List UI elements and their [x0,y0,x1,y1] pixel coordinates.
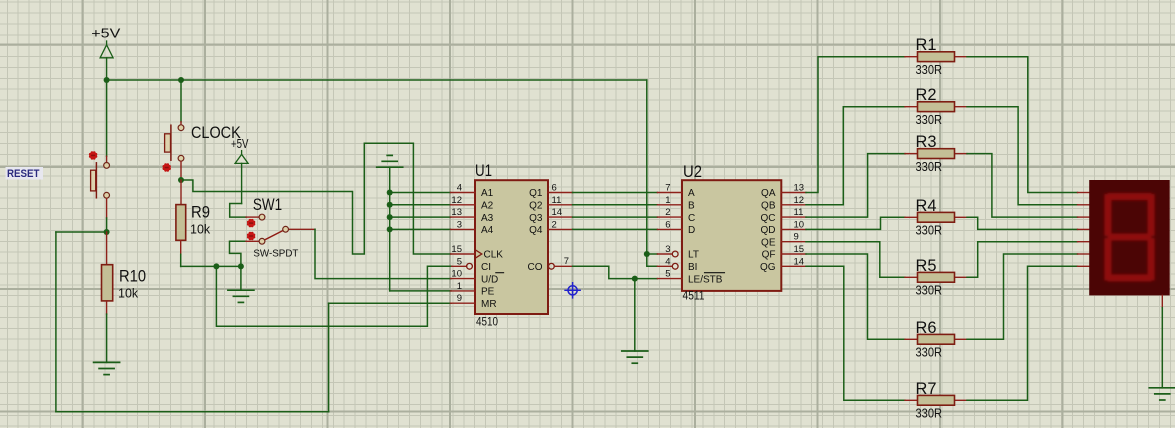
svg-text:CLK: CLK [484,250,504,261]
svg-text:U2: U2 [683,162,702,181]
wire CI route [216,266,451,326]
U2 pin 9 QE [761,232,806,249]
wire R5 to display pin e [967,242,1078,278]
svg-text:6: 6 [665,219,670,230]
label RESET [6,167,44,180]
svg-text:14: 14 [552,207,563,218]
svg-text:BI: BI [688,262,697,273]
node rail-clock junction [178,77,184,83]
svg-text:R6: R6 [916,318,937,337]
resistor R2 [905,85,967,127]
U2 pin 1 B [657,195,695,212]
svg-text:4: 4 [665,256,670,267]
wire Q to U2 input [573,204,658,206]
svg-text:Q3: Q3 [529,213,543,224]
wire Q to U2 input [573,216,658,218]
svg-text:R7: R7 [916,379,937,398]
wire rail down to LT/BI [647,80,658,266]
svg-text:330R: 330R [916,346,943,360]
7-segment display [1089,180,1170,295]
svg-text:A: A [688,188,695,199]
svg-text:13: 13 [451,207,462,218]
svg-text:QB: QB [761,201,776,212]
svg-text:R9: R9 [191,203,210,222]
svg-text:LT: LT [688,250,699,261]
svg-text:9: 9 [794,232,799,243]
svg-text:1: 1 [457,281,462,292]
wire R9 bottom [180,254,182,266]
svg-text:Q1: Q1 [529,188,543,199]
U2 pin 15 QF [762,244,806,261]
svg-text:QC: QC [761,213,776,224]
svg-text:10: 10 [451,269,462,280]
wire QF to R6 [806,254,905,339]
svg-text:U/D: U/D [481,274,498,285]
display common lead [1161,295,1163,307]
U2 pin 10 QD [761,219,807,236]
ground at display [1149,388,1175,400]
wire A-bus vertical [389,167,391,291]
U1 pin 12 A2 [451,195,494,212]
U1 pin 11 Q2 [529,195,572,212]
push button RESET [89,151,110,218]
resistor R6 [905,318,967,360]
svg-text:330R: 330R [916,160,943,174]
node A4 junction [387,226,393,232]
power symbol +5V at SW1 [231,137,249,203]
U1 pin 14 Q3 [529,207,572,224]
node LT junction [644,251,650,257]
U1 pin 5 CI [452,256,491,273]
ground above A-bus (inverted) [377,155,403,167]
svg-text:3: 3 [457,219,462,230]
wire R4 to display pin d [967,217,1078,229]
svg-text:2: 2 [552,219,557,230]
power symbol +5V top-left [91,26,121,80]
svg-text:QF: QF [762,250,776,261]
node A2 junction [387,202,393,208]
wire A2 branch [390,204,451,206]
U1 pin 9 MR [451,293,497,310]
display pin lead [1078,216,1090,218]
display pin lead [1078,204,1090,206]
wire SW1 bottom throw to ground node [230,241,247,266]
svg-text:15: 15 [451,244,462,255]
wire R6 to display pin f [967,254,1078,339]
wire MR horizontal [329,302,451,304]
IC U2 4511 body [682,162,781,303]
svg-text:6: 6 [552,183,557,194]
svg-text:11: 11 [552,195,562,206]
wire PE branch [390,290,451,292]
svg-text:330R: 330R [916,284,943,298]
ground at SW1 [228,266,254,302]
wire QE to R5 [806,242,905,278]
wire ci node rail [181,265,241,267]
svg-text:RESET: RESET [7,168,40,180]
node LE junction [632,276,638,282]
U1 pin 15 CLK [451,244,504,261]
svg-text:330R: 330R [916,224,943,238]
wire rail to RESET button [106,80,108,156]
svg-text:+5V: +5V [231,137,249,151]
U1 pin 10 U/D [451,269,504,286]
svg-text:Q4: Q4 [529,225,543,236]
U2 pin 12 QB [761,195,806,212]
svg-text:A1: A1 [481,188,494,199]
resistor R7 [905,379,967,421]
svg-text:A4: A4 [481,225,494,236]
svg-text:CI: CI [481,262,491,273]
switch SW1 SW-SPDT [246,195,315,260]
svg-text:Q2: Q2 [529,201,543,212]
wire display common to ground [1161,308,1163,388]
svg-text:SW1: SW1 [253,195,282,214]
wire CO to LE/STB [573,266,658,278]
resistor R5 [905,256,967,298]
svg-text:U1: U1 [475,161,492,180]
svg-text:QA: QA [761,188,776,199]
resistor R4 [905,196,967,238]
display pin lead [1078,265,1090,267]
wire A4 branch [390,228,451,230]
svg-text:12: 12 [451,195,462,206]
U2 pin 5 LE/STB [657,269,724,286]
svg-text:PE: PE [481,287,495,298]
svg-text:CO: CO [528,262,543,273]
node rail-reset junction [104,77,110,83]
U1 pin 1 PE [451,281,495,298]
svg-text:MR: MR [481,299,497,310]
display pin lead [1078,253,1090,255]
svg-text:9: 9 [457,293,462,304]
U2 pin 6 D [657,219,695,236]
U1 pin 4 A1 [451,183,494,200]
U2 pin 11 QC [761,207,807,224]
svg-text:R5: R5 [916,256,937,275]
svg-text:5: 5 [665,269,670,280]
node reset junction [104,229,110,235]
node A1 junction [387,190,393,196]
svg-text:11: 11 [794,207,804,218]
node A3 junction [387,214,393,220]
svg-text:QD: QD [761,225,776,236]
svg-text:13: 13 [794,183,805,194]
svg-text:+5V: +5V [91,26,121,40]
svg-text:QE: QE [761,237,776,248]
display pin lead [1078,192,1090,194]
display pin lead [1078,241,1090,243]
svg-text:4: 4 [457,183,462,194]
svg-text:SW-SPDT: SW-SPDT [253,249,298,260]
wire QD to R4 [806,217,905,229]
svg-text:14: 14 [794,256,805,267]
wire QA to R1 [806,57,905,193]
svg-text:330R: 330R [916,407,943,421]
push button CLOCK [163,122,184,180]
svg-text:A3: A3 [481,213,494,224]
svg-text:1: 1 [665,195,670,206]
svg-text:C: C [688,213,695,224]
svg-text:D: D [688,225,695,236]
wire QC to R3 [806,154,905,218]
wire reset node left [56,231,107,233]
wire +5V rail [107,79,647,81]
wire Q to U2 input [573,228,658,230]
svg-text:4510: 4510 [476,316,498,328]
wire R3 to display pin c [967,154,1078,218]
svg-text:R1: R1 [916,35,937,54]
wire R2 to display pin b [967,107,1078,205]
U2 pin 2 C [657,207,695,224]
display pin lead [1078,228,1090,230]
svg-text:2: 2 [665,207,670,218]
node clock junction [178,177,184,183]
svg-text:A2: A2 [481,201,494,212]
U1 pin 7 CO [528,256,573,273]
wire SW1 common to U/D [315,229,451,278]
svg-text:7: 7 [665,183,670,194]
svg-text:5: 5 [457,256,462,267]
wire A1 branch [390,192,451,194]
wire rail to CLOCK button [180,80,182,122]
wire reset left down [55,232,57,412]
svg-text:QG: QG [760,262,776,273]
wire QB to R2 [806,107,905,205]
wire reset node [106,218,108,232]
svg-text:3: 3 [665,244,670,255]
svg-text:330R: 330R [916,63,943,77]
U1 pin 3 A4 [451,219,494,236]
wire bottom reset run [56,411,329,413]
U2 pin 13 QA [761,183,806,200]
wire R7 to display pin g [967,266,1078,400]
wire clock node to CLK pin loop [181,143,451,254]
IC U1 4510 body [475,161,548,328]
wire R1 to display pin a [967,57,1078,193]
origin marker [564,282,581,299]
svg-text:R3: R3 [916,132,937,151]
wire LT branch [647,253,658,255]
wire Q to U2 input [573,192,658,194]
resistor R9 [176,180,211,254]
resistor R1 [905,35,967,77]
svg-text:10: 10 [794,219,805,230]
svg-text:4511: 4511 [683,291,705,303]
wire QG to R7 [806,266,905,400]
svg-text:R4: R4 [916,196,937,215]
U1 pin 6 Q1 [529,183,572,200]
wire A3 branch [390,216,451,218]
U2 pin 7 A [657,183,695,200]
svg-text:R2: R2 [916,85,937,104]
svg-text:LE/STB: LE/STB [688,274,723,285]
svg-text:10k: 10k [118,286,139,300]
svg-text:10k: 10k [190,222,211,236]
wire bottom to MR rise [328,303,330,412]
node ci junction [213,263,219,269]
resistor R3 [905,132,967,174]
U2 pin 3 LT [657,244,699,261]
svg-text:7: 7 [564,256,569,267]
svg-text:330R: 330R [916,113,943,127]
svg-text:12: 12 [794,195,805,206]
U2 pin 4 BI [657,256,697,273]
svg-text:R10: R10 [119,267,146,286]
svg-text:B: B [688,201,695,212]
U1 pin 13 A3 [451,207,494,224]
ground below R10 [94,314,120,375]
U2 pin 14 QG [760,256,806,273]
resistor R10 [102,232,147,314]
ground at LE node [622,279,648,364]
node ground junction [238,263,244,269]
svg-text:15: 15 [794,244,805,255]
U1 pin 2 Q4 [529,219,572,236]
wire +5V to SW1 top throw [230,204,246,218]
